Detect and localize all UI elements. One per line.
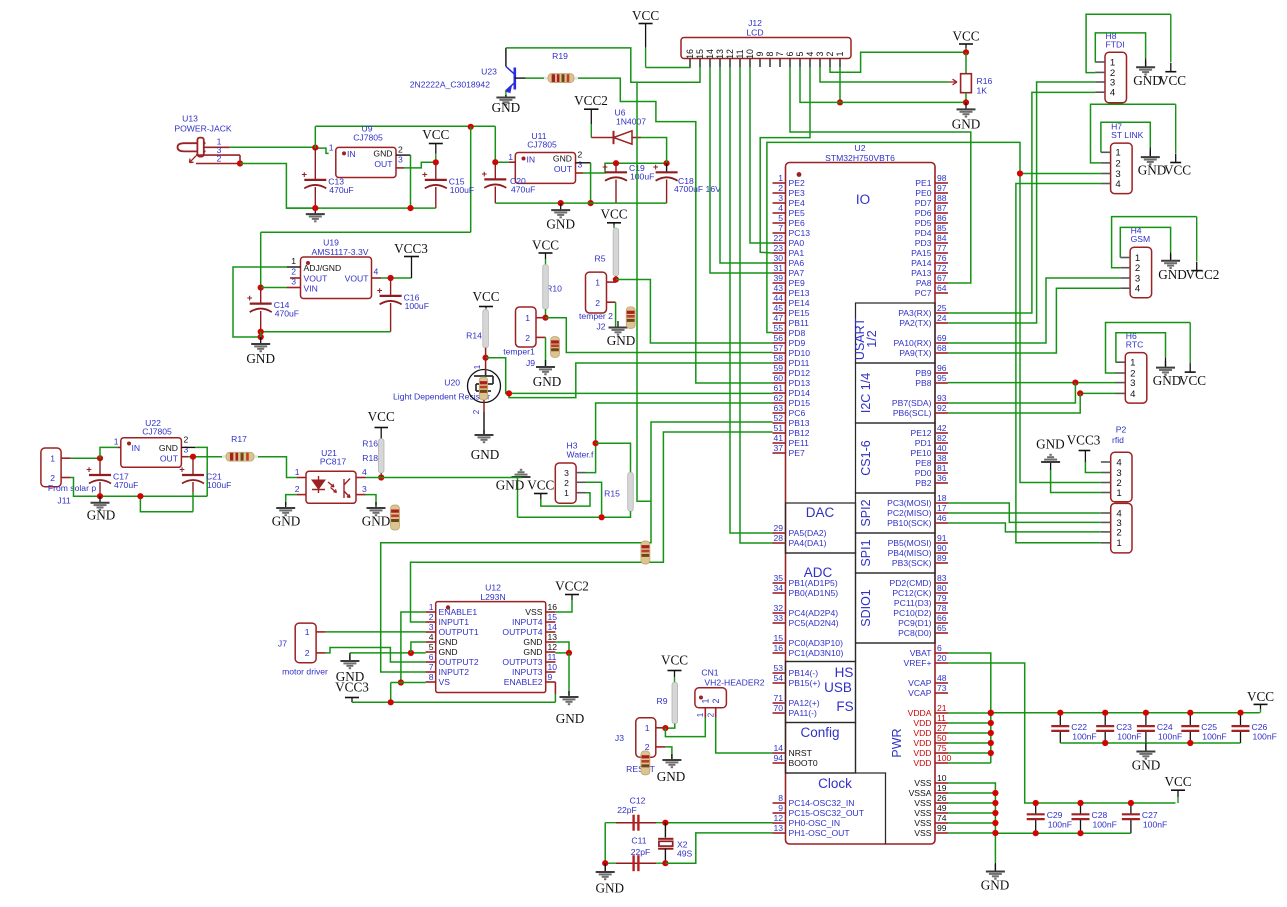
svg-text:IN: IN <box>132 443 141 453</box>
H7 pin 2 <box>1101 162 1111 164</box>
wire VBAT to VDD bus <box>948 653 991 763</box>
svg-text:9: 9 <box>755 51 765 56</box>
svg-text:11: 11 <box>937 713 946 723</box>
J12 pin 5 <box>799 59 801 68</box>
wire PD8 to P2 bus <box>767 142 1101 482</box>
svg-text:100nF: 100nF <box>1093 820 1117 830</box>
svg-text:42: 42 <box>937 423 947 433</box>
wire OSC_IN line <box>665 822 772 824</box>
svg-text:92: 92 <box>937 403 947 413</box>
U2 pin 99 VSS <box>935 832 948 834</box>
svg-text:62: 62 <box>773 393 783 403</box>
U2 pin 45 PE15 <box>773 312 786 314</box>
svg-text:PD1: PD1 <box>915 438 932 448</box>
svg-text:VCC: VCC <box>1164 163 1191 178</box>
svg-text:10: 10 <box>745 49 755 59</box>
U2 pin 1 PE2 <box>773 182 786 184</box>
svg-text:5: 5 <box>795 51 805 56</box>
svg-text:2: 2 <box>595 298 600 308</box>
svg-text:1: 1 <box>473 364 482 369</box>
svg-text:PD12: PD12 <box>789 368 811 378</box>
U2 pin 66 PC9(D1) <box>935 622 948 624</box>
svg-text:PA13: PA13 <box>911 268 932 278</box>
wire VDD row 723 <box>948 722 991 724</box>
svg-text:VCC: VCC <box>1159 73 1186 88</box>
svg-text:GND: GND <box>981 878 1010 893</box>
capacitor C26 100nF <box>1240 713 1242 726</box>
U2 pin 20 VREF+ <box>935 662 948 664</box>
IC U2 STM32H750VBT6 body <box>786 163 936 845</box>
svg-text:2N2222A_C3018942: 2N2222A_C3018942 <box>410 80 490 90</box>
U2 pin 7 PC13 <box>773 232 786 234</box>
svg-text:88: 88 <box>937 193 947 203</box>
driver U12 L293N <box>436 602 546 693</box>
U2 pin 100 VDD <box>935 762 948 764</box>
H6 pin 4 <box>1116 392 1126 394</box>
svg-text:3: 3 <box>778 193 783 203</box>
wire PA2 to H8.3 <box>948 82 1095 323</box>
svg-text:PE12: PE12 <box>910 428 931 438</box>
svg-text:85: 85 <box>937 223 947 233</box>
H7 pin 4 <box>1101 183 1111 185</box>
wire VIN rail y232 <box>261 231 471 233</box>
U2 pin 72 PA13 <box>935 272 948 274</box>
svg-text:98: 98 <box>937 173 947 183</box>
H8 pin 1 <box>1095 61 1105 63</box>
U2 pin 95 PB8 <box>935 382 948 384</box>
svg-text:470uF: 470uF <box>114 480 138 490</box>
svg-text:PD9: PD9 <box>789 338 806 348</box>
svg-text:DAC: DAC <box>806 505 835 520</box>
svg-text:11: 11 <box>735 49 745 58</box>
svg-text:GND: GND <box>272 514 301 529</box>
svg-text:PB3(SCK): PB3(SCK) <box>892 558 932 568</box>
svg-text:21: 21 <box>937 703 947 713</box>
wire LDR junction to PD14 <box>486 358 773 394</box>
svg-text:68: 68 <box>937 343 947 353</box>
H6 pin 3 <box>1116 382 1126 384</box>
svg-text:PC2(MISO): PC2(MISO) <box>887 508 932 518</box>
svg-text:GND: GND <box>496 478 525 493</box>
svg-text:7: 7 <box>778 223 783 233</box>
section PWR <box>856 643 936 773</box>
svg-text:J3: J3 <box>615 733 624 743</box>
U2 pin 13 PH1-OSC_OUT <box>773 832 786 834</box>
svg-text:1: 1 <box>305 627 310 637</box>
regulator U22 CJ7805 <box>121 438 182 468</box>
svg-text:52: 52 <box>773 413 783 423</box>
wire J12 pin5 to GND line <box>800 67 966 102</box>
svg-text:CJ7805: CJ7805 <box>353 133 383 143</box>
capacitor C21 100uF <box>192 457 194 475</box>
P2 pin 3 group1 <box>1101 472 1111 474</box>
svg-text:C28: C28 <box>1092 810 1108 820</box>
wire temper1 to PD10 <box>546 318 773 353</box>
svg-text:94: 94 <box>773 753 783 763</box>
svg-text:J2: J2 <box>596 322 605 332</box>
svg-text:PB7(SDA): PB7(SDA) <box>892 398 932 408</box>
svg-text:PC5(AD2N4): PC5(AD2N4) <box>789 618 839 628</box>
U2 pin 47 PB11 <box>773 322 786 324</box>
U2 pin 80 PC12(CK) <box>935 592 948 594</box>
wire VSS bus <box>948 783 995 863</box>
svg-text:PD15: PD15 <box>789 398 811 408</box>
U2 pin 46 PB10(SCK) <box>935 522 948 524</box>
svg-text:470uF: 470uF <box>329 185 353 195</box>
svg-text:100nF: 100nF <box>1158 732 1182 742</box>
U2 pin 69 PA10(RX) <box>935 342 948 344</box>
wire GND rail under U11 <box>495 202 666 204</box>
svg-text:13: 13 <box>548 632 558 642</box>
U13 pin 1 <box>204 146 230 148</box>
capacitor C23 100nF <box>1104 713 1106 726</box>
svg-text:STM32H750VBT6: STM32H750VBT6 <box>825 153 895 163</box>
svg-text:6: 6 <box>429 652 434 662</box>
wire H6.2 loop to VCC <box>1106 323 1191 374</box>
wire H4.1 loop to GND <box>1120 227 1170 257</box>
svg-text:PD4: PD4 <box>915 228 932 238</box>
svg-text:OUT: OUT <box>374 159 393 169</box>
svg-text:U2: U2 <box>855 143 866 153</box>
svg-text:63: 63 <box>773 403 783 413</box>
svg-text:1: 1 <box>114 437 119 447</box>
svg-text:GND: GND <box>1132 758 1161 773</box>
wire C21 return to gnd rail <box>140 496 193 512</box>
svg-text:100uF: 100uF <box>630 171 654 181</box>
capacitor C18 4700uF 16V <box>666 163 668 172</box>
svg-text:25: 25 <box>937 303 947 313</box>
potentiometer R16 1K <box>965 52 967 73</box>
wire U19 VOUT to VCC3 and C16 <box>381 277 412 279</box>
svg-text:64: 64 <box>937 283 947 293</box>
svg-text:72: 72 <box>937 263 947 273</box>
svg-text:VCC: VCC <box>1164 774 1191 789</box>
ground under caps <box>604 863 606 872</box>
capacitor C14 470uF <box>260 288 262 304</box>
svg-text:31: 31 <box>773 263 783 273</box>
svg-text:PH0-OSC_IN: PH0-OSC_IN <box>789 818 841 828</box>
U2 pin 60 PD13 <box>773 382 786 384</box>
U2 pin 35 PB1(AD1P5) <box>773 582 786 584</box>
svg-text:PB4(MISO): PB4(MISO) <box>888 548 932 558</box>
svg-text:VSS: VSS <box>914 808 931 818</box>
svg-text:PB5(MOSI): PB5(MOSI) <box>888 538 932 548</box>
U2 pin 36 PB2 <box>935 482 948 484</box>
connector J11 From solar p <box>41 448 61 487</box>
connector J12 LCD <box>681 38 851 59</box>
svg-text:BOOT0: BOOT0 <box>789 758 818 768</box>
svg-text:4: 4 <box>1135 284 1141 295</box>
U22 OUT wire <box>181 456 188 458</box>
resistor R18 <box>378 439 384 473</box>
svg-text:P2: P2 <box>1116 425 1127 435</box>
U23 collector wire <box>505 48 507 67</box>
svg-text:U12: U12 <box>485 583 501 593</box>
wire branch to PD11 <box>509 363 773 398</box>
svg-text:C22: C22 <box>1071 722 1087 732</box>
svg-text:56: 56 <box>773 333 783 343</box>
svg-text:VCC: VCC <box>422 127 449 142</box>
svg-text:PE9: PE9 <box>789 278 805 288</box>
wire GND4 down <box>411 642 426 653</box>
svg-text:71: 71 <box>773 693 783 703</box>
svg-text:PE8: PE8 <box>915 458 931 468</box>
U2 pin 84 PD3 <box>935 242 948 244</box>
svg-text:C24: C24 <box>1157 722 1173 732</box>
wire H4.2 loop to VCC2 <box>1112 217 1197 268</box>
svg-text:VIN: VIN <box>304 284 318 294</box>
svg-text:VBAT: VBAT <box>910 648 933 658</box>
wire R15 bottom to gnd line <box>518 511 631 517</box>
svg-text:1: 1 <box>835 51 845 56</box>
svg-text:+: + <box>247 293 253 304</box>
U12 pin 8 VS <box>426 681 436 683</box>
svg-text:3: 3 <box>1130 378 1135 389</box>
node VCC C15 junction <box>433 159 439 165</box>
wire H3 pin2 down <box>586 482 602 517</box>
svg-text:VSS: VSS <box>914 778 931 788</box>
U12 pin 4 GND <box>426 641 436 643</box>
U2 pin 74 VSS <box>935 822 948 824</box>
svg-text:R15: R15 <box>604 489 620 499</box>
U2 pin 70 PA11(-) <box>773 712 786 714</box>
svg-text:PE4: PE4 <box>789 198 805 208</box>
J12 pin 7 <box>779 59 781 68</box>
svg-text:GND: GND <box>596 881 625 896</box>
svg-text:4: 4 <box>374 267 379 277</box>
U2 pin 27 VDD <box>935 732 948 734</box>
svg-text:4: 4 <box>429 632 434 642</box>
wire J12 pin2 to VCC node <box>830 52 966 72</box>
svg-text:81: 81 <box>937 463 947 473</box>
svg-text:60: 60 <box>773 373 783 383</box>
svg-text:90: 90 <box>937 543 947 553</box>
svg-text:74: 74 <box>937 813 947 823</box>
svg-text:1: 1 <box>295 467 300 477</box>
U12 pin 3 OUTPUT1 <box>426 631 436 633</box>
U2 pin 18 PC3(MOSI) <box>935 502 948 504</box>
svg-text:PE14: PE14 <box>789 298 810 308</box>
svg-text:IN: IN <box>347 149 356 159</box>
svg-text:PC1(AD3N10): PC1(AD3N10) <box>789 648 844 658</box>
svg-text:PA14: PA14 <box>911 258 932 268</box>
wire lower caps bottom rail <box>995 832 1131 834</box>
svg-text:100nF: 100nF <box>1048 820 1072 830</box>
svg-text:10: 10 <box>937 773 947 783</box>
wire rail to U11 IN <box>495 126 509 162</box>
U2 pin 8 PC14-OSC32_IN <box>773 802 786 804</box>
svg-text:VCAP: VCAP <box>908 688 932 698</box>
U2 pin 21 VDDA <box>935 712 948 714</box>
svg-text:VCC: VCC <box>1179 373 1206 388</box>
svg-text:100nF: 100nF <box>1253 732 1277 742</box>
svg-text:PE11: PE11 <box>789 438 810 448</box>
svg-text:1: 1 <box>701 698 711 703</box>
svg-text:2: 2 <box>1116 527 1121 538</box>
U2 pin 6 VBAT <box>935 652 948 654</box>
U2 pin 34 PB0(AD1N5) <box>773 592 786 594</box>
svg-text:+: + <box>482 169 488 180</box>
wire ADJ/GND loop <box>233 267 287 337</box>
svg-text:37: 37 <box>773 443 783 453</box>
svg-text:79: 79 <box>937 593 947 603</box>
resistor below U21 <box>391 505 400 530</box>
svg-text:U19: U19 <box>323 238 339 248</box>
svg-text:PB9: PB9 <box>915 368 931 378</box>
wire VSS row 803 <box>948 802 995 804</box>
svg-text:PE2: PE2 <box>789 178 805 188</box>
svg-text:VCC2: VCC2 <box>1186 267 1220 282</box>
svg-text:R18: R18 <box>362 453 378 463</box>
wire R17 to U21 pin1 <box>258 457 297 478</box>
U2 pin 51 PB12 <box>773 432 786 434</box>
svg-text:PD2(CMD): PD2(CMD) <box>889 578 931 588</box>
U2 pin 53 PB14(-) <box>773 672 786 674</box>
J12 pin 9 <box>759 59 761 68</box>
svg-text:+: + <box>653 162 659 173</box>
node jack pin2 junction <box>237 160 243 166</box>
svg-text:93: 93 <box>937 393 947 403</box>
svg-text:23: 23 <box>773 243 783 253</box>
svg-text:PB10(SCK): PB10(SCK) <box>887 518 932 528</box>
U2 pin 97 PE0 <box>935 192 948 194</box>
svg-text:GND: GND <box>523 647 542 657</box>
svg-text:PD10: PD10 <box>789 348 811 358</box>
svg-text:R19: R19 <box>552 51 568 61</box>
wire H8.2 loop to VCC <box>1086 14 1171 72</box>
svg-text:GND: GND <box>1158 267 1187 282</box>
node gnd join under C14 <box>258 334 264 340</box>
svg-text:80: 80 <box>937 583 947 593</box>
U12 pin 1 ENABLE1 <box>426 611 436 613</box>
svg-text:36: 36 <box>937 473 947 483</box>
svg-text:GND: GND <box>533 374 562 389</box>
svg-text:3: 3 <box>398 155 403 165</box>
connector H6 RTC <box>1125 353 1147 404</box>
svg-text:FS: FS <box>836 699 853 714</box>
svg-text:45: 45 <box>773 303 783 313</box>
U2 pin 89 PB3(SCK) <box>935 562 948 564</box>
svg-text:34: 34 <box>773 583 783 593</box>
svg-text:9: 9 <box>548 672 553 682</box>
wire J7.1 to OUTPUT1 <box>326 631 426 633</box>
svg-text:PB6(SCL): PB6(SCL) <box>893 408 932 418</box>
wire U21 pin2 to ground <box>286 495 297 505</box>
svg-text:SPI1: SPI1 <box>859 539 873 566</box>
svg-text:PB12: PB12 <box>789 428 810 438</box>
wire H7.4 to P2 <box>1016 184 1101 543</box>
svg-text:35: 35 <box>773 573 783 583</box>
svg-text:GND: GND <box>1133 73 1162 88</box>
wire J12 pin4 to PA1 <box>760 67 810 253</box>
H6 pin 2 <box>1116 372 1126 374</box>
svg-text:VOUT: VOUT <box>345 274 370 284</box>
svg-text:1: 1 <box>1116 488 1121 499</box>
resistor at RESET <box>641 751 650 775</box>
svg-text:1: 1 <box>525 313 530 323</box>
svg-text:GND: GND <box>87 508 116 523</box>
U2 pin 81 PD0 <box>935 472 948 474</box>
section HS USB FS <box>786 662 856 723</box>
U2 pin 91 PB5(MOSI) <box>935 542 948 544</box>
resistor near J2 <box>626 307 635 329</box>
wire PC3 to P2 <box>948 503 1101 522</box>
U2 pin 5 PE6 <box>773 222 786 224</box>
U2 pin 14 NRST <box>773 752 786 754</box>
U23 base wire <box>515 77 526 79</box>
U2 pin 23 PA1 <box>773 252 786 254</box>
U12 pin 13 GND <box>546 641 556 643</box>
wire temper2 to PD9 <box>616 280 773 344</box>
capacitor C15 100uF <box>435 162 437 180</box>
svg-text:PC11(D3): PC11(D3) <box>894 598 932 608</box>
U2 pin 85 PD4 <box>935 232 948 234</box>
svg-text:GND: GND <box>546 217 575 232</box>
U2 pin 61 PD14 <box>773 392 786 394</box>
svg-text:33: 33 <box>773 613 783 623</box>
svg-text:PC7: PC7 <box>915 288 932 298</box>
svg-text:PC0(AD3P10): PC0(AD3P10) <box>789 638 844 648</box>
svg-text:VCC2: VCC2 <box>574 93 608 108</box>
connector CN1 VH2-HEADER2 <box>695 688 727 708</box>
svg-text:1: 1 <box>696 712 705 717</box>
node rail drop to VIN loop <box>468 124 474 130</box>
connector J7 motor driver <box>295 623 316 663</box>
svg-text:13: 13 <box>715 49 725 59</box>
svg-text:95: 95 <box>937 373 947 383</box>
svg-text:PA8: PA8 <box>916 278 932 288</box>
capacitor C28 100nF <box>1080 803 1082 814</box>
svg-text:66: 66 <box>937 613 947 623</box>
U2 pin 63 PC6 <box>773 412 786 414</box>
svg-text:3: 3 <box>362 484 367 494</box>
svg-text:PE5: PE5 <box>789 208 805 218</box>
svg-text:PB11: PB11 <box>789 318 810 328</box>
wire cap bottom rail <box>1060 742 1240 744</box>
wire VDD row 743 <box>948 742 991 744</box>
wire C14 C16 gnd rail <box>261 331 391 333</box>
U9 OUT pin wire to VCC node <box>396 167 404 169</box>
svg-text:100: 100 <box>937 753 952 763</box>
svg-text:GND: GND <box>1153 373 1182 388</box>
U2 pin 33 PC5(AD2N4) <box>773 622 786 624</box>
svg-text:49S: 49S <box>677 849 693 859</box>
H4 pin 3 <box>1120 277 1130 279</box>
svg-text:2: 2 <box>525 333 530 343</box>
wire temper2 pin2 to ground <box>615 302 617 328</box>
U2 pin 41 PE11 <box>773 442 786 444</box>
svg-text:22: 22 <box>773 233 783 243</box>
svg-text:PB0(AD1N5): PB0(AD1N5) <box>789 588 839 598</box>
wire J12 pin6 to PA8 <box>790 67 971 283</box>
resistor between nets <box>641 541 650 564</box>
svg-text:VCC3: VCC3 <box>1067 433 1101 448</box>
H8 pin 3 <box>1095 81 1105 83</box>
U2 pin 75 VDD <box>935 752 948 754</box>
svg-text:32: 32 <box>773 603 783 613</box>
ground under U12 right <box>568 653 570 695</box>
svg-text:2: 2 <box>184 435 189 445</box>
svg-text:PD6: PD6 <box>915 208 932 218</box>
svg-text:CS1-6: CS1-6 <box>859 440 873 475</box>
svg-text:C29: C29 <box>1047 810 1063 820</box>
wire U13.3 to U13.2 tie <box>239 155 241 163</box>
svg-text:58: 58 <box>773 353 783 363</box>
svg-text:VH2-HEADER2: VH2-HEADER2 <box>704 678 764 688</box>
P2 pin 2 group2 <box>1101 531 1111 533</box>
wire VSS row 823 <box>948 822 995 824</box>
U2 pin 79 PC11(D3) <box>935 602 948 604</box>
